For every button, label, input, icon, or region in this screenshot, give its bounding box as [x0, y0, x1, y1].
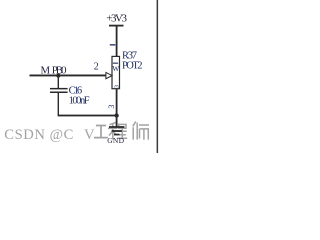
svg-text:100nF: 100nF	[69, 96, 90, 107]
capacitor C16	[50, 76, 68, 116]
power +3V3	[106, 13, 127, 57]
watermark 师	[133, 122, 149, 140]
junction node at capacitor tap	[56, 74, 60, 78]
wire M_PB0 horizontal	[30, 75, 107, 77]
watermark 程	[108, 122, 127, 139]
svg-text:W: W	[112, 64, 120, 73]
svg-text:CSDN @C: CSDN @C	[4, 127, 74, 143]
pin name 3 (rotated) inside box bottom	[113, 84, 120, 88]
potentiometer R37 body	[112, 56, 120, 88]
wiper arrow into pot	[106, 72, 112, 78]
svg-text:POT2: POT2	[122, 60, 143, 71]
sheet border line right	[157, 0, 159, 153]
pin 3 number (rotated)	[107, 105, 116, 109]
pin 1 number (rotated)	[110, 44, 116, 45]
svg-text:V: V	[84, 127, 95, 143]
wire bottom horizontal	[58, 115, 118, 117]
svg-text:3: 3	[107, 105, 116, 109]
wire pot bottom to ground	[116, 89, 118, 127]
junction node at ground tap	[114, 113, 118, 117]
watermark 工	[94, 126, 108, 138]
pin name 1 (rotated) inside box top	[113, 63, 118, 64]
svg-text:2: 2	[94, 62, 99, 73]
svg-text:GND: GND	[107, 136, 124, 145]
ground GND	[107, 126, 124, 145]
svg-text:M_PB0: M_PB0	[41, 64, 67, 76]
svg-text:+3V3: +3V3	[106, 13, 127, 25]
